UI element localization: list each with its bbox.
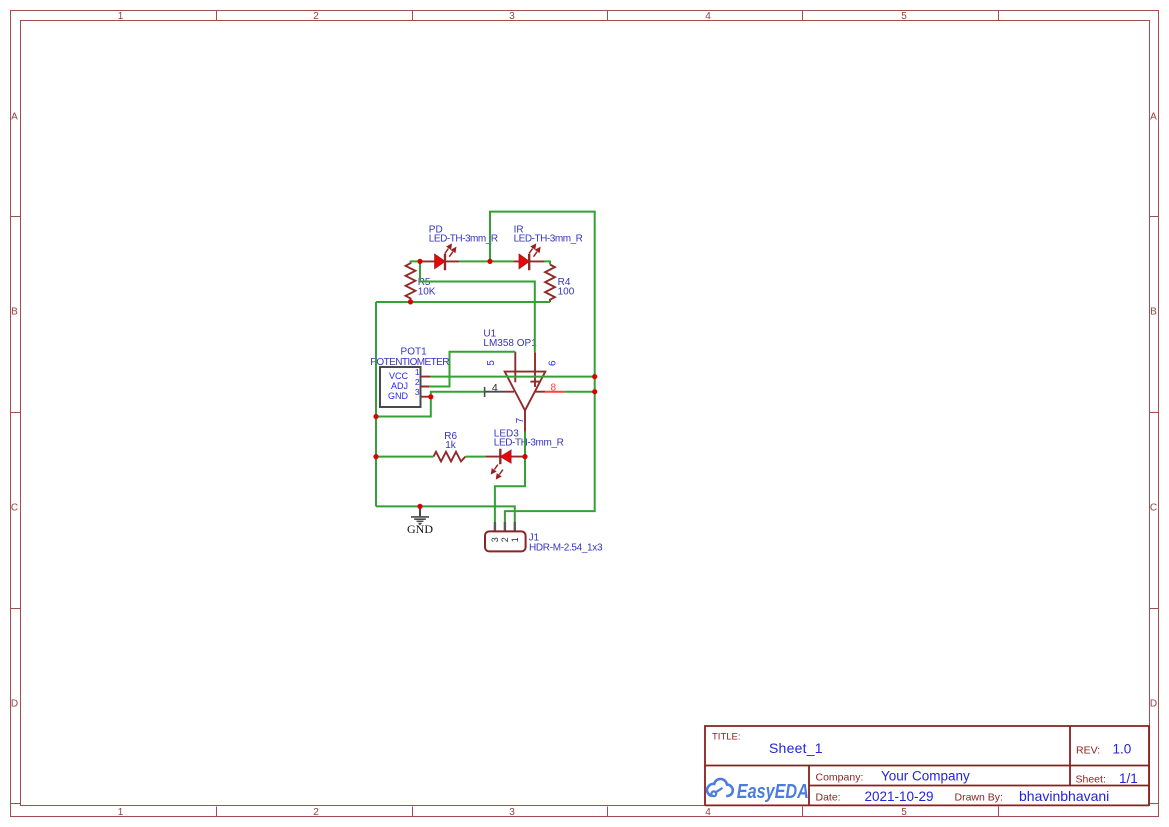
svg-text:5: 5 bbox=[901, 807, 907, 818]
svg-text:5: 5 bbox=[901, 11, 907, 22]
svg-text:6: 6 bbox=[547, 360, 558, 366]
svg-text:2: 2 bbox=[313, 11, 319, 22]
svg-text:Sheet:: Sheet: bbox=[1076, 774, 1106, 786]
svg-text:POT1: POT1 bbox=[401, 346, 428, 357]
svg-text:D: D bbox=[1150, 699, 1157, 710]
svg-text:EasyEDA: EasyEDA bbox=[737, 780, 809, 802]
svg-text:1: 1 bbox=[510, 537, 520, 542]
svg-text:GND: GND bbox=[388, 391, 409, 401]
svg-text:TITLE:: TITLE: bbox=[712, 732, 741, 743]
svg-text:ADJ: ADJ bbox=[391, 381, 408, 391]
svg-text:REV:: REV: bbox=[1076, 744, 1100, 756]
svg-text:1: 1 bbox=[118, 11, 124, 22]
svg-text:D: D bbox=[11, 699, 18, 710]
svg-text:3: 3 bbox=[509, 807, 515, 818]
svg-text:VCC: VCC bbox=[389, 371, 409, 381]
svg-text:3: 3 bbox=[509, 11, 515, 22]
svg-text:2: 2 bbox=[415, 377, 420, 387]
svg-text:POTENTIOMETER: POTENTIOMETER bbox=[370, 357, 449, 368]
svg-text:HDR-M-2.54_1x3: HDR-M-2.54_1x3 bbox=[529, 543, 603, 554]
svg-text:Date:: Date: bbox=[816, 792, 841, 804]
svg-text:7: 7 bbox=[515, 417, 526, 423]
svg-text:C: C bbox=[11, 503, 18, 514]
svg-text:Your Company: Your Company bbox=[881, 769, 970, 784]
svg-text:1k: 1k bbox=[445, 440, 457, 451]
svg-text:C: C bbox=[1150, 503, 1157, 514]
svg-text:bhavinbhavani: bhavinbhavani bbox=[1019, 788, 1109, 804]
svg-text:Drawn By:: Drawn By: bbox=[955, 792, 1003, 804]
svg-text:LED-TH-3mm_R: LED-TH-3mm_R bbox=[494, 438, 564, 449]
svg-text:A: A bbox=[1150, 112, 1157, 123]
svg-text:4: 4 bbox=[705, 11, 711, 22]
svg-text:1: 1 bbox=[118, 807, 124, 818]
svg-text:3: 3 bbox=[415, 387, 420, 397]
svg-text:100: 100 bbox=[558, 286, 575, 297]
svg-text:A: A bbox=[11, 112, 18, 123]
svg-text:1: 1 bbox=[415, 367, 420, 377]
svg-text:1/1: 1/1 bbox=[1119, 771, 1138, 786]
svg-text:LED-TH-3mm_R: LED-TH-3mm_R bbox=[429, 234, 498, 245]
svg-text:B: B bbox=[1150, 307, 1157, 318]
svg-text:5: 5 bbox=[486, 360, 497, 366]
svg-text:10K: 10K bbox=[418, 286, 436, 297]
svg-text:GND: GND bbox=[407, 522, 433, 536]
svg-text:1.0: 1.0 bbox=[1113, 741, 1132, 756]
svg-text:Sheet_1: Sheet_1 bbox=[769, 740, 823, 756]
svg-text:2021-10-29: 2021-10-29 bbox=[865, 789, 934, 804]
svg-text:4: 4 bbox=[705, 807, 711, 818]
svg-text:B: B bbox=[11, 307, 18, 318]
svg-text:LED-TH-3mm_R: LED-TH-3mm_R bbox=[514, 234, 583, 245]
svg-text:Company:: Company: bbox=[816, 772, 864, 784]
svg-text:2: 2 bbox=[500, 537, 510, 542]
svg-text:4: 4 bbox=[492, 382, 498, 394]
svg-text:8: 8 bbox=[551, 383, 557, 394]
svg-text:3: 3 bbox=[490, 537, 500, 542]
svg-text:LM358 OP1: LM358 OP1 bbox=[483, 338, 537, 349]
svg-text:2: 2 bbox=[313, 807, 319, 818]
